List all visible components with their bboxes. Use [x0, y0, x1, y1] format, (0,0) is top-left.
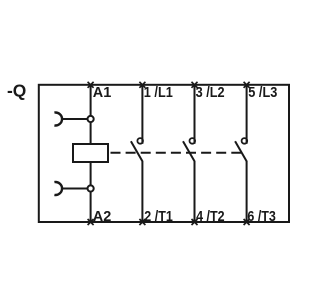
- svg-text:6 /T3: 6 /T3: [247, 208, 276, 225]
- svg-text:1 /L1: 1 /L1: [144, 84, 173, 101]
- svg-text:2 /T1: 2 /T1: [144, 208, 173, 225]
- svg-text:A2: A2: [93, 208, 112, 225]
- svg-text:3 /L2: 3 /L2: [196, 84, 225, 101]
- svg-text:-Q: -Q: [7, 80, 26, 100]
- svg-text:A1: A1: [93, 84, 112, 101]
- svg-text:5 /L3: 5 /L3: [248, 84, 277, 101]
- svg-text:4 /T2: 4 /T2: [196, 208, 225, 225]
